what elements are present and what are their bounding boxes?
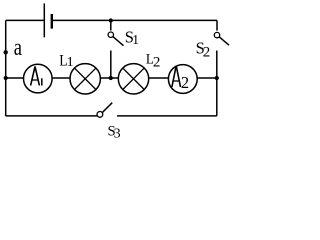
lamp L2 circle [118, 64, 148, 94]
wire: bottom left segment [6, 115, 98, 117]
ammeter A2 symbol A [172, 66, 181, 87]
wire: A2 to right wire [197, 77, 217, 79]
junction dot middle wire / S1 [109, 76, 113, 80]
svg-text:1: 1 [67, 55, 74, 70]
junction dot left middle [4, 76, 8, 80]
wire: L2 to A2 [149, 77, 169, 79]
ammeter A1 symbol A [31, 67, 40, 86]
switch S2 blade (open) [219, 37, 229, 45]
svg-text:3: 3 [114, 127, 121, 142]
lamp L1 circle [70, 64, 100, 94]
switch S3 blade (open) [103, 103, 113, 113]
lamp L2 cross [123, 68, 144, 89]
battery short plate (-) [51, 14, 53, 29]
switch S3 pivot circle [97, 112, 103, 118]
wire: right vertical from S2 to middle row [216, 51, 218, 79]
wire: A1 to L1 [52, 77, 70, 79]
battery long plate (+) [43, 3, 45, 37]
lamp L1 cross [75, 68, 96, 89]
wire: right vertical middle row to bottom [216, 78, 218, 116]
ammeter A1 subscript 1 [41, 78, 43, 85]
wire: top left segment to battery [6, 19, 44, 21]
switch S1 pivot circle [108, 32, 113, 37]
wire: middle row left wire to A1 [6, 77, 24, 79]
ammeter A2 circle [168, 65, 197, 94]
switch S2 pivot circle [214, 32, 219, 37]
wire: right vertical upper stub (top corner down to S2) [216, 20, 218, 30]
ammeter A1 circle [24, 64, 53, 93]
svg-text:2: 2 [153, 54, 161, 70]
wire: top segment battery to right corner [53, 19, 217, 21]
junction dot right middle [215, 76, 219, 80]
svg-text:2: 2 [203, 44, 211, 60]
switch S1 stub from top wire [110, 20, 112, 30]
wire: left vertical [5, 20, 7, 116]
switch S1 blade (open) [113, 37, 124, 46]
junction dot top wire / S1 [109, 18, 113, 22]
wire: S1 lower terminal down to middle junction [110, 51, 112, 79]
svg-text:1: 1 [132, 32, 139, 47]
wire: L1 to L2 through junction [100, 77, 118, 79]
node a dot [3, 50, 7, 54]
wire: bottom right segment [117, 115, 217, 117]
svg-text:2: 2 [181, 73, 189, 92]
svg-text:a: a [14, 35, 22, 61]
